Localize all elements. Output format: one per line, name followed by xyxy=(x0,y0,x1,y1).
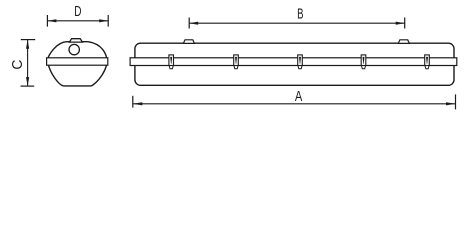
clip 4 xyxy=(361,55,366,69)
svg-text:A: A xyxy=(295,89,303,105)
dimension A extension tick left xyxy=(132,96,134,108)
side view band xyxy=(130,58,457,66)
dimension D extension tick left xyxy=(46,15,48,27)
cross-section body (egg profile) xyxy=(48,42,108,86)
dimension B extension tick right xyxy=(404,18,406,29)
dimension D line xyxy=(47,19,108,22)
svg-text:B: B xyxy=(297,7,303,23)
dimension D extension tick right xyxy=(107,15,109,27)
cross-section top tab xyxy=(69,39,82,42)
svg-text:C: C xyxy=(9,59,26,69)
svg-text:D: D xyxy=(74,3,81,20)
dimension A extension tick right xyxy=(455,94,457,109)
clip 2 xyxy=(234,55,239,69)
cross-section band xyxy=(47,58,108,65)
clip 1 xyxy=(169,55,174,69)
side view suspension tab 1 xyxy=(183,40,194,44)
side view suspension tab 2 xyxy=(398,40,409,44)
dimension A line xyxy=(133,102,456,105)
clip 3 xyxy=(298,55,303,69)
dimension C extension tick bottom xyxy=(21,85,35,87)
dimension B line xyxy=(189,22,405,25)
clip 5 xyxy=(425,55,430,69)
dimension C line xyxy=(26,40,29,86)
dimension C extension tick top xyxy=(21,39,35,41)
cross-section knockout circle xyxy=(69,44,79,54)
dimension B extension tick left xyxy=(188,18,190,29)
side view body xyxy=(135,43,454,85)
